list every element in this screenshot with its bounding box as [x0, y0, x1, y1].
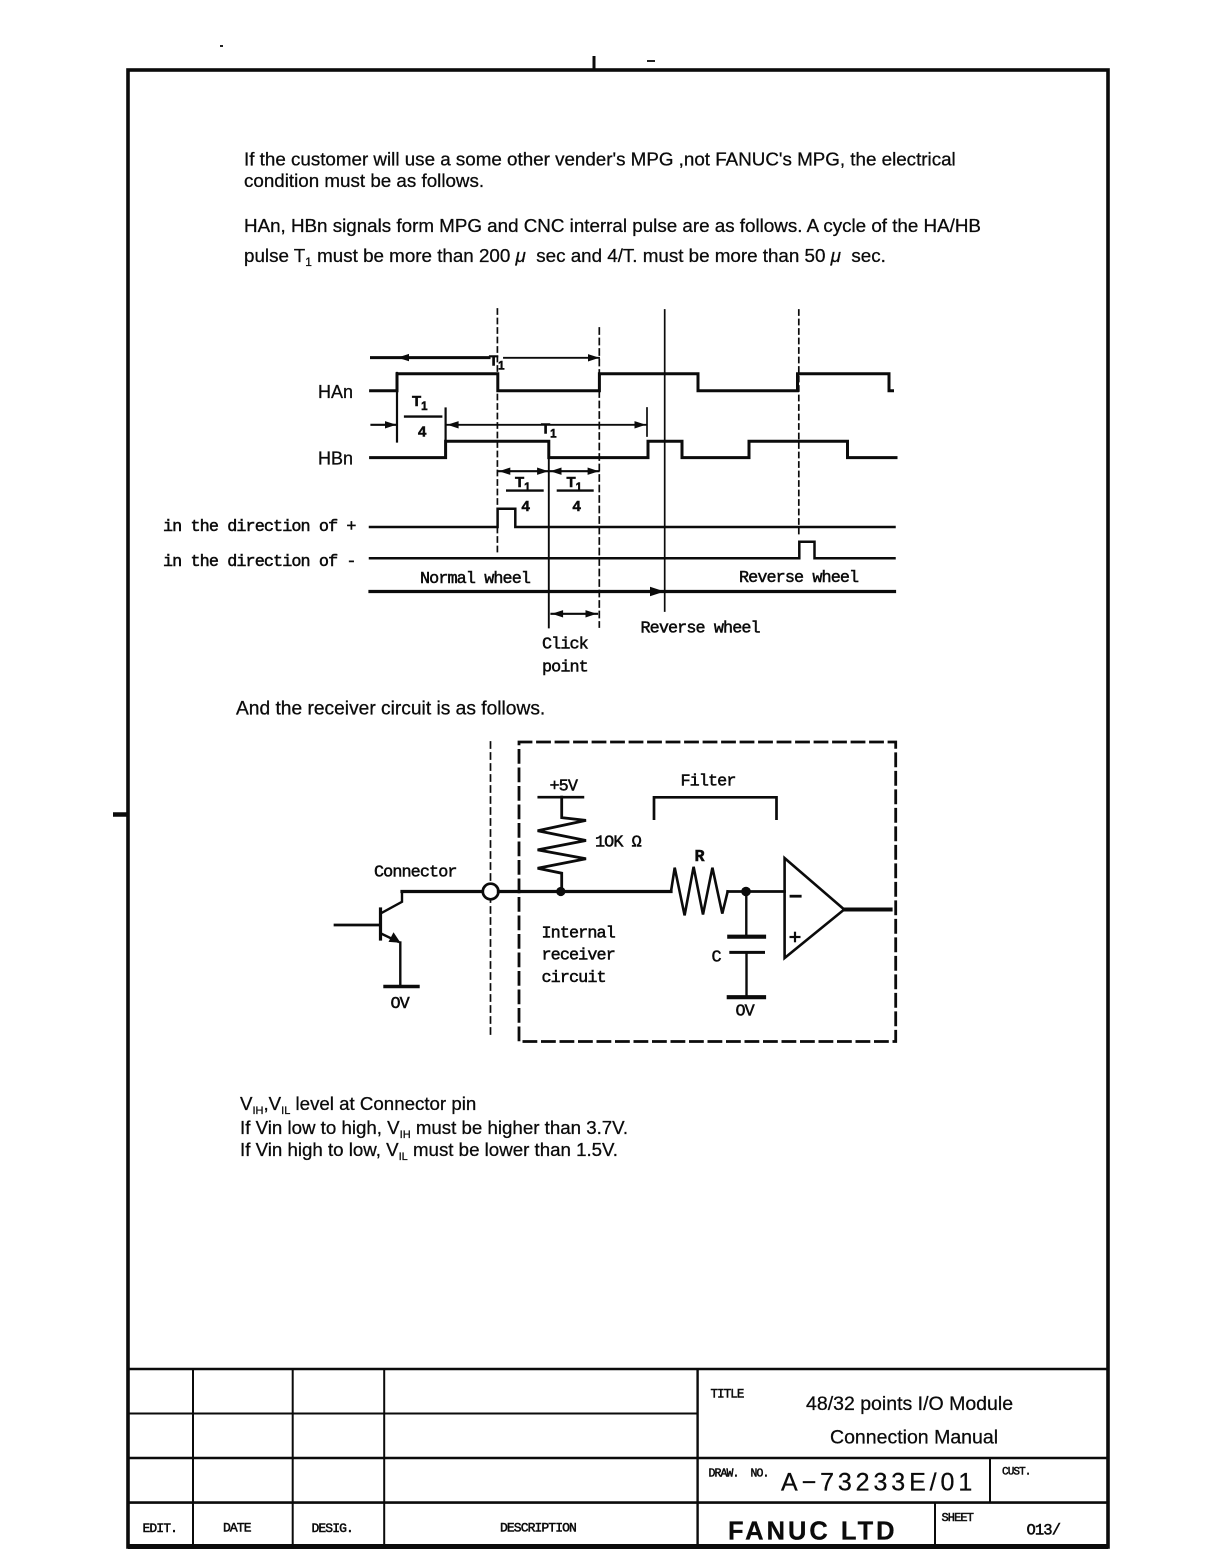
extension line at HBn rising edge x=446	[445, 409, 447, 443]
T1 dimension line row2 (446 to 647)	[447, 424, 646, 426]
waveform HAn	[371, 374, 893, 391]
svg-text:in the direction of -: in the direction of -	[163, 553, 356, 572]
svg-text:Connection Manual: Connection Manual	[830, 1427, 998, 1449]
filter bracket	[654, 797, 777, 818]
fraction bar click right	[558, 489, 593, 491]
page frame bottom emphasis	[128, 1544, 1108, 1549]
capacitor C bottom plate	[731, 951, 764, 954]
svg-text:+5V: +5V	[550, 778, 578, 797]
extension line at HAn rising edge x=397	[396, 373, 398, 442]
title block column line 3	[383, 1369, 385, 1547]
waveform HBn	[371, 441, 896, 457]
dashed grid line D4 (x=799)	[798, 310, 800, 537]
svg-text:SHEET: SHEET	[942, 1511, 974, 1525]
capacitor C bottom lead	[745, 952, 747, 995]
row2 dimension line left stub	[372, 424, 397, 426]
op-amp output wire	[844, 908, 890, 912]
svg-text:T1: T1	[541, 421, 557, 441]
node junction dot before op-amp	[741, 887, 751, 897]
connector boundary dashed line	[490, 742, 492, 1039]
svg-text:TITLE: TITLE	[711, 1388, 744, 1402]
svg-text:CUST.: CUST.	[1002, 1467, 1031, 1479]
svg-text:O13/: O13/	[1027, 1522, 1061, 1540]
direction - signal line with pulse	[370, 542, 895, 559]
svg-text:If the customer will use a som: If the customer will use a some other ve…	[244, 149, 956, 170]
svg-text:point: point	[542, 659, 588, 678]
title block row line 3	[128, 1501, 1108, 1504]
svg-text:Reverse wheel: Reverse wheel	[641, 620, 761, 639]
svg-text:OV: OV	[391, 995, 410, 1014]
transistor Q1 collector	[381, 892, 402, 914]
fraction bar T1/4 row2	[405, 415, 441, 417]
speck dot	[220, 45, 223, 47]
op-amp plus input mark	[791, 936, 800, 938]
svg-text:Normal wheel: Normal wheel	[420, 570, 531, 589]
svg-text:1OK Ω: 1OK Ω	[595, 834, 642, 853]
svg-text:FANUC LTD: FANUC LTD	[728, 1518, 898, 1546]
sheet divider column	[934, 1503, 936, 1547]
svg-text:condition must be as follows.: condition must be as follows.	[244, 170, 484, 191]
capacitor C top lead	[745, 892, 747, 935]
main wire right of connector circle	[498, 890, 671, 893]
wire from R to node	[728, 890, 785, 893]
extension tick at x=647	[646, 408, 648, 436]
fraction bar click left	[507, 489, 542, 491]
registration tick left	[113, 812, 128, 817]
svg-text:C: C	[712, 949, 722, 968]
op-amp minus input mark	[791, 895, 800, 898]
node junction dot under 10K	[556, 887, 565, 896]
svg-text:Filter: Filter	[681, 773, 736, 792]
svg-text:Internal: Internal	[542, 925, 616, 944]
svg-text:Reverse wheel: Reverse wheel	[739, 569, 859, 588]
click T1/4 dimension arrows row (y=471)	[499, 470, 549, 472]
svg-text:VIH,VIL level at Connector pin: VIH,VIL level at Connector pin	[240, 1093, 476, 1117]
svg-text:receiver: receiver	[542, 947, 615, 966]
svg-text:EDIT.: EDIT.	[143, 1521, 178, 1536]
click point dimension arrow	[552, 613, 598, 615]
svg-text:If Vin low to high, VIH must b: If Vin low to high, VIH must be higher t…	[240, 1117, 628, 1141]
svg-text:4: 4	[418, 424, 427, 441]
op-amp U1 triangle	[785, 858, 845, 958]
svg-text:HBn: HBn	[318, 449, 353, 469]
svg-text:Click: Click	[542, 636, 589, 655]
arrowhead right at x=396 row2	[385, 421, 396, 428]
title block row line 2	[128, 1457, 1108, 1459]
T1 dimension line row1 right part	[504, 357, 599, 359]
solid reverse-point line D3 (x=665)	[664, 310, 666, 611]
resistor 10K vertical zigzag	[538, 797, 586, 891]
arrowhead right at x=646 row2	[635, 421, 646, 428]
svg-text:And the receiver circuit is as: And the receiver circuit is as follows.	[236, 699, 545, 720]
connector pin circle	[483, 884, 499, 900]
svg-text:in the direction of +: in the direction of +	[163, 518, 356, 537]
title block column line 1	[192, 1369, 194, 1547]
cust divider column	[989, 1458, 991, 1503]
svg-text:HAn: HAn	[318, 382, 353, 402]
svg-text:R: R	[695, 848, 706, 867]
svg-text:DATE: DATE	[223, 1521, 252, 1536]
extension line below HBn falling edge x=549	[548, 457, 550, 627]
ground bar under transistor	[385, 985, 418, 988]
svg-text:HAn, HBn signals form MPG and: HAn, HBn signals form MPG and CNC interr…	[244, 215, 981, 236]
title block column line 2	[292, 1369, 294, 1547]
svg-text:If Vin high to low, VIL must b: If Vin high to low, VIL must be lower th…	[240, 1139, 618, 1163]
title block main divider column	[696, 1369, 698, 1547]
dashed grid line D2 (x=599)	[598, 328, 600, 627]
capacitor C top plate	[729, 935, 764, 939]
title block row line left section	[128, 1413, 698, 1415]
arrowhead right at x=599 row1	[588, 354, 599, 361]
svg-text:T1: T1	[412, 393, 428, 413]
transistor Q1 base bar	[379, 909, 382, 939]
page frame	[128, 70, 1108, 1547]
svg-text:4: 4	[522, 498, 531, 515]
T1 dimension line row1 left part	[372, 356, 490, 359]
transistor Q1 emitter	[381, 934, 398, 942]
transistor Q1 emitter arrowhead	[389, 932, 401, 943]
svg-text:DESIG.: DESIG.	[312, 1521, 353, 1536]
svg-text:OV: OV	[736, 1003, 755, 1022]
registration tick top	[593, 56, 596, 70]
main wire left of connector circle	[402, 890, 483, 893]
arrowhead left at x=447 row2	[447, 421, 458, 428]
svg-text:48/32 points I/O Module: 48/32 points I/O Module	[806, 1393, 1013, 1415]
dashed grid line D1 (x=497)	[496, 309, 498, 552]
internal receiver circuit dashed box	[519, 742, 896, 1042]
svg-text:Connector: Connector	[374, 864, 457, 883]
svg-text:4: 4	[573, 498, 582, 515]
title block top line	[128, 1368, 1108, 1371]
bottom region dimension line	[370, 590, 895, 593]
+5V supply bar	[539, 796, 583, 799]
ground bar under capacitor	[729, 995, 764, 999]
arrowhead left at x=397 row1	[398, 354, 410, 361]
direction + signal line with pulse	[370, 509, 895, 527]
svg-text:DESCRIPTION: DESCRIPTION	[500, 1521, 576, 1536]
resistor R horizontal zigzag	[671, 867, 728, 916]
svg-text:circuit: circuit	[542, 969, 606, 988]
transistor emitter lead wire	[399, 943, 401, 987]
arrowhead right at x=665 bottom line	[650, 587, 665, 596]
svg-text:DRAW. NO.: DRAW. NO.	[709, 1468, 769, 1481]
transistor Q1 base wire	[335, 924, 381, 927]
svg-text:pulse T1 must be more than 200: pulse T1 must be more than 200 μ sec and…	[244, 245, 886, 269]
svg-text:A−73233E/01: A−73233E/01	[781, 1469, 976, 1497]
